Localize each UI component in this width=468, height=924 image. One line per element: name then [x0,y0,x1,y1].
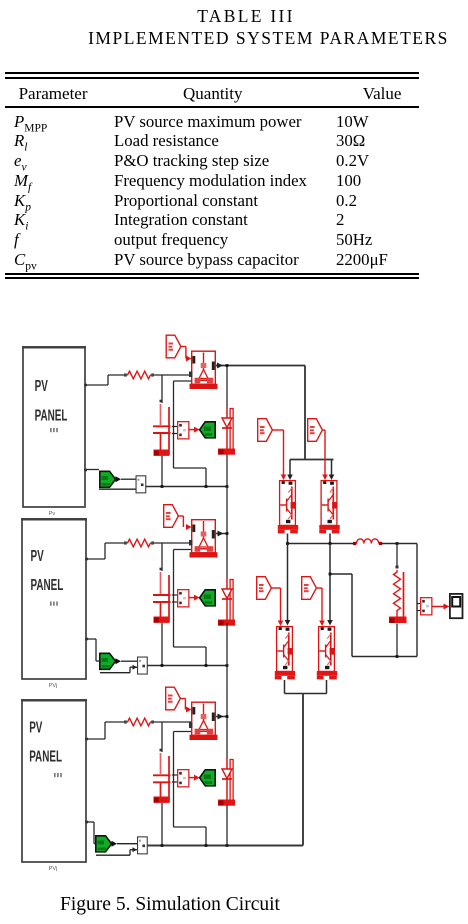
output wire of boost 3 [216,714,227,720]
svg-text:PV: PV [29,720,43,737]
wire: gate pulse to MOSFET 3 [180,699,191,713]
voltage measurement block VM3 [172,770,189,787]
wire: PV panel 1 + output to boost input [85,375,191,385]
PV panel 3 block [21,700,88,862]
filter inductor L1 [353,539,382,545]
MOSFET switch block U3 [189,702,218,740]
current measurement block IM3 [138,837,148,854]
capacitor C1 [153,375,171,487]
resistor R2 (boost inductor series) [124,539,154,547]
wire: MOSFET 3 source to bottom rail [174,732,207,846]
wire: lower return into measurement block [100,665,137,673]
From tag G2 (gate pulse) [164,505,179,528]
voltage measurement block VM out [417,598,432,615]
svg-text:PVj: PVj [49,683,58,689]
bypass diode D2 [218,578,235,626]
load resistor RL [389,566,407,624]
Goto tag I2 (green) [100,653,121,669]
wire: gate pulse to MOSFET 1 [181,347,192,362]
From tag G3 (gate pulse) [166,687,181,710]
wire: tag arrow to current measurement i output [121,478,136,480]
wire: lower return into measurement block [96,847,137,855]
wire: PV panel 2 + output to boost input [86,543,191,559]
wire: DC link to H-bridge top [287,366,334,481]
bottom rail of row 2 [147,664,228,667]
top double rule [5,72,419,74]
From tag S4 [302,577,317,600]
voltage measurement block VM1 [172,422,189,439]
wire: branch to load return [329,573,352,657]
scope block [450,594,463,618]
wire: panel 3 negative to Goto tag [86,822,96,844]
wire: to scope [432,604,449,610]
wire: lower return into measurement block [99,488,136,490]
capacitor C2 [153,543,171,666]
wire: tag arrow to current measurement i output [121,660,137,662]
svg-text:Pv: Pv [49,511,56,517]
voltage measurement block VM2 [172,590,189,607]
bypass diode D3 [218,758,235,806]
current measurement block IM1 [136,476,146,493]
output wire of boost 1 [216,363,305,369]
figure caption [0,895,340,915]
svg-text:PVj: PVj [49,866,58,872]
bottom rail of row 1 [146,485,229,488]
Goto tag I1 (green) [100,471,121,487]
wire: panel 2 negative to Goto tag [86,639,100,661]
capacitor C3 [153,722,171,846]
IGBT Q4 [317,627,337,680]
data rows [14,114,47,131]
header row [19,85,88,102]
svg-text:PANEL: PANEL [29,749,62,766]
From tag S1 [258,419,273,442]
Goto tag V3 (green) [190,770,216,786]
wire: tag arrow to current measurement i output [117,843,137,845]
wire: right sense branch [416,544,418,657]
wire: panel 1 negative to Goto tag [85,469,99,471]
resistor R3 (boost inductor series) [124,718,154,726]
PV panel 2 block [21,519,88,679]
svg-text:PV: PV [31,548,45,565]
gate wire S1 [272,430,286,480]
IGBT Q3 [275,627,295,680]
bottom rail of row 3 [147,844,303,847]
wire: bridge output down to row3 rail [302,694,304,846]
Goto tag I3 (green) [96,836,117,852]
resistor R1 (boost inductor series) [124,371,154,379]
PV panel 1 block [22,347,87,507]
svg-text:PV: PV [35,378,49,395]
IGBT Q1 [278,481,298,534]
wire: MOSFET 2 source to bottom rail [174,550,207,666]
gate wire S2 [322,430,328,480]
gate wire S3 [271,588,283,626]
Goto tag V1 (green) [190,422,216,438]
Goto tag V2 (green) [190,590,216,606]
bottom double rule [5,273,419,275]
current measurement block IM2 [138,657,148,674]
table title [0,6,468,27]
IGBT Q2 [319,481,339,534]
MOSFET switch block U1 [189,351,218,389]
wire: inductor to load top [382,542,417,566]
output wire of boost 2 [216,531,227,537]
gate wire S4 [316,588,324,626]
bypass diode D1 [218,407,235,455]
wire: load bottom return [352,624,417,658]
wire: gate pulse to MOSFET 2 [178,516,191,530]
svg-text:PANEL: PANEL [31,577,64,594]
wire: PV panel 3 + output to boost input [86,722,191,739]
MOSFET switch block U2 [189,520,218,558]
series bus wire segments [226,364,229,845]
svg-text:PANEL: PANEL [35,408,68,425]
From tag S2 [308,419,323,442]
header underline [5,106,419,108]
H-bridge mid bus [286,534,356,545]
wire: MOSFET 1 source to bottom rail [174,381,207,487]
From tag G1 (gate pulse) [166,335,181,358]
H-bridge bottom output bracket [285,680,327,694]
From tag S3 [257,577,272,600]
wire: bus to lower IGBT collectors [285,544,333,626]
